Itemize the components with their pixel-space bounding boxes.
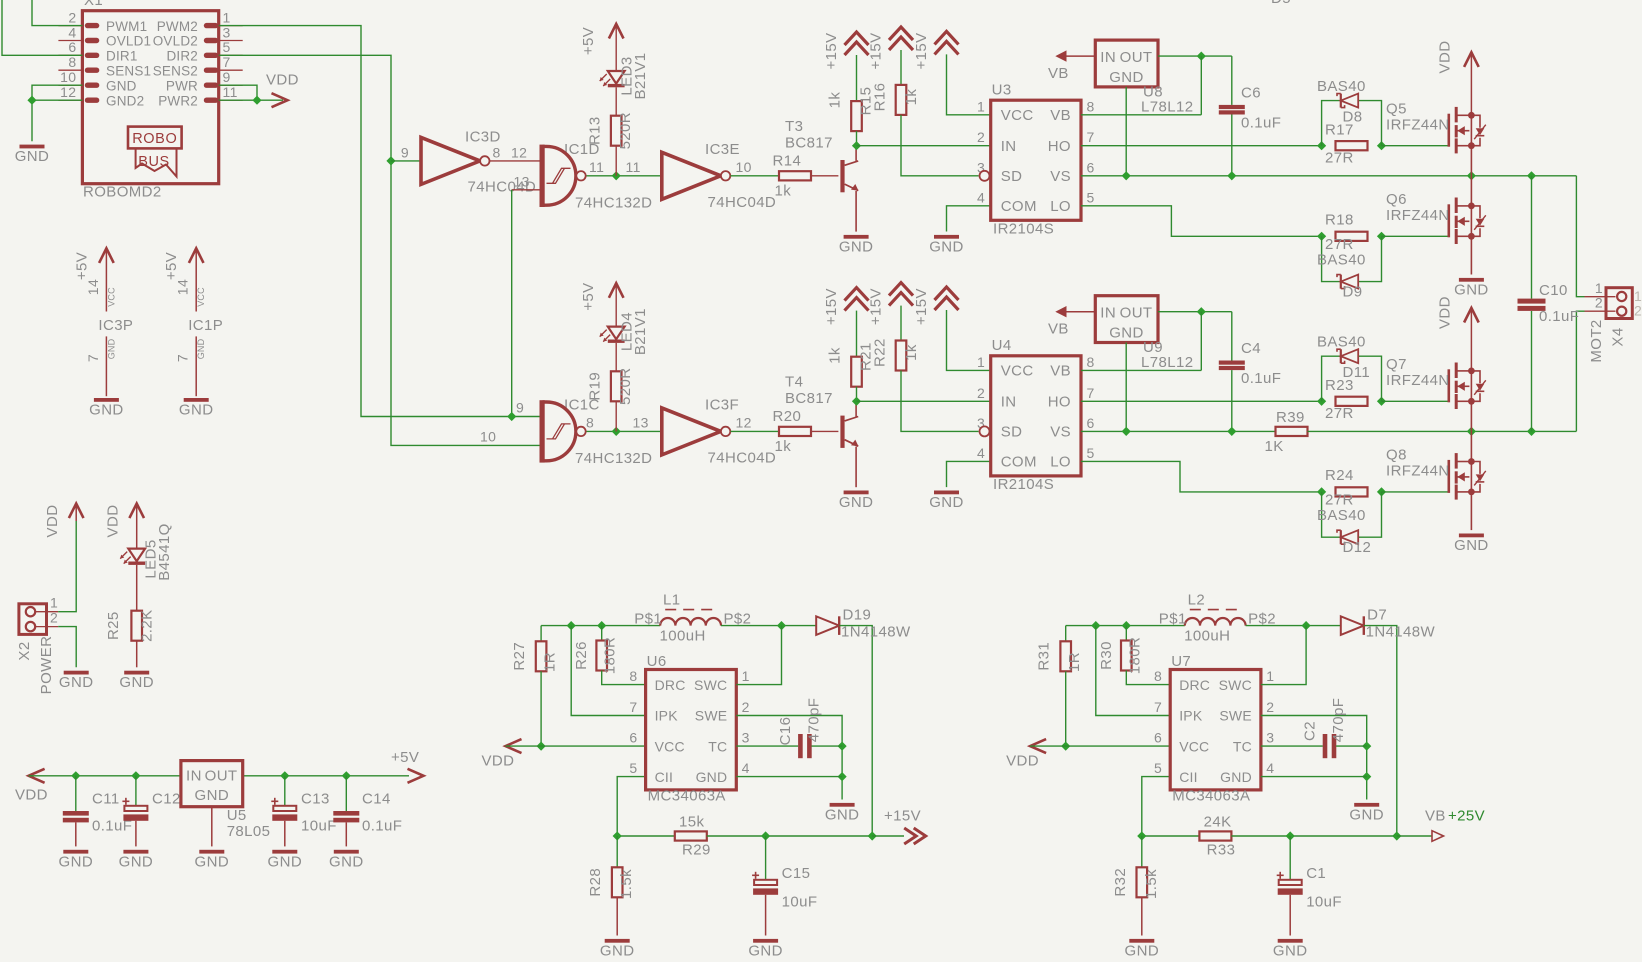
svg-text:R39: R39 — [1276, 409, 1305, 426]
svg-text:VDD: VDD — [44, 505, 61, 538]
svg-text:IC3D: IC3D — [465, 129, 501, 146]
svg-text:8: 8 — [493, 144, 501, 160]
svg-text:0.1uF: 0.1uF — [1241, 370, 1281, 387]
svg-text:Q8: Q8 — [1386, 447, 1407, 464]
svg-text:VCC: VCC — [655, 738, 685, 754]
svg-text:4: 4 — [1266, 760, 1274, 776]
svg-text:TC: TC — [708, 738, 727, 754]
svg-text:GND: GND — [839, 494, 874, 511]
svg-text:IN: IN — [1100, 305, 1116, 322]
svg-text:GND: GND — [1109, 325, 1144, 342]
svg-text:1: 1 — [1266, 668, 1274, 684]
svg-text:U5: U5 — [227, 807, 247, 824]
svg-text:COM: COM — [1001, 198, 1037, 215]
svg-text:R30: R30 — [1098, 641, 1115, 670]
svg-text:VB: VB — [1048, 65, 1069, 82]
svg-text:4: 4 — [68, 24, 76, 40]
svg-text:1: 1 — [1595, 280, 1603, 296]
svg-text:D5: D5 — [1271, 0, 1291, 7]
svg-text:DRC: DRC — [1179, 677, 1210, 693]
svg-text:8: 8 — [586, 415, 594, 431]
svg-text:VB: VB — [1050, 107, 1071, 124]
svg-text:GND: GND — [748, 942, 783, 959]
svg-text:COM: COM — [1001, 454, 1037, 471]
svg-text:1N4148W: 1N4148W — [1366, 624, 1436, 641]
svg-text:1k: 1k — [827, 347, 844, 364]
svg-text:1R: 1R — [542, 652, 559, 672]
svg-text:10: 10 — [60, 69, 76, 85]
svg-text:MC34063A: MC34063A — [648, 788, 726, 805]
svg-text:GND: GND — [1220, 769, 1252, 785]
svg-text:4: 4 — [742, 760, 750, 776]
svg-text:2: 2 — [977, 129, 985, 145]
svg-text:C14: C14 — [362, 791, 391, 808]
svg-text:0.1uF: 0.1uF — [1241, 115, 1281, 132]
svg-text:520R: 520R — [617, 112, 634, 149]
svg-text:3: 3 — [742, 730, 750, 746]
svg-text:6: 6 — [1087, 415, 1095, 431]
svg-text:T3: T3 — [785, 118, 803, 135]
svg-text:B21V1: B21V1 — [632, 308, 649, 355]
svg-text:GND: GND — [106, 338, 116, 359]
svg-text:11: 11 — [223, 84, 238, 100]
svg-text:D9: D9 — [1343, 284, 1363, 301]
svg-text:MC34063A: MC34063A — [1172, 788, 1250, 805]
svg-text:IC3E: IC3E — [705, 141, 740, 158]
svg-text:6: 6 — [1087, 159, 1095, 175]
svg-text:+5V: +5V — [580, 27, 597, 55]
svg-text:6: 6 — [68, 39, 76, 55]
svg-text:1: 1 — [50, 595, 58, 611]
svg-text:GND: GND — [106, 78, 137, 93]
svg-text:1: 1 — [1634, 288, 1642, 304]
svg-text:OVLD2: OVLD2 — [153, 34, 198, 49]
svg-text:1: 1 — [223, 9, 231, 25]
svg-text:ROBOMD2: ROBOMD2 — [83, 184, 162, 201]
svg-text:R24: R24 — [1325, 467, 1354, 484]
svg-text:IC3F: IC3F — [705, 397, 739, 414]
svg-text:C4: C4 — [1241, 340, 1261, 357]
svg-text:P$2: P$2 — [1248, 610, 1276, 627]
svg-text:GND: GND — [1454, 281, 1489, 298]
svg-text:9: 9 — [516, 400, 524, 416]
svg-text:B21V1: B21V1 — [632, 52, 649, 99]
svg-text:T4: T4 — [785, 373, 803, 390]
svg-text:R18: R18 — [1325, 212, 1354, 229]
svg-text:DIR1: DIR1 — [106, 49, 138, 64]
svg-text:27R: 27R — [1325, 492, 1354, 509]
svg-text:GND: GND — [119, 853, 154, 870]
svg-text:IRFZ44N: IRFZ44N — [1386, 207, 1450, 224]
svg-text:CII: CII — [1179, 769, 1198, 785]
svg-text:BC817: BC817 — [785, 134, 833, 151]
svg-text:GND: GND — [179, 402, 214, 419]
svg-text:5: 5 — [1087, 445, 1095, 461]
svg-text:SENS1: SENS1 — [106, 63, 151, 78]
svg-text:VCC: VCC — [1001, 107, 1034, 124]
svg-text:C10: C10 — [1539, 282, 1568, 299]
svg-text:1k: 1k — [903, 344, 920, 361]
svg-text:GND: GND — [696, 769, 728, 785]
svg-text:SWE: SWE — [695, 708, 728, 724]
svg-text:CII: CII — [655, 769, 674, 785]
svg-text:100uH: 100uH — [1184, 628, 1230, 645]
svg-text:+15V: +15V — [823, 32, 840, 69]
svg-text:GND: GND — [1125, 942, 1160, 959]
svg-text:520R: 520R — [617, 368, 634, 405]
svg-text:15k: 15k — [679, 814, 704, 831]
svg-text:10: 10 — [736, 159, 752, 175]
svg-text:GND: GND — [196, 338, 206, 359]
svg-text:470pF: 470pF — [806, 698, 823, 743]
svg-text:R26: R26 — [573, 641, 590, 670]
svg-text:1.5k: 1.5k — [618, 869, 635, 899]
svg-text:D19: D19 — [843, 607, 872, 624]
svg-text:7: 7 — [175, 354, 191, 362]
svg-text:2: 2 — [977, 385, 985, 401]
svg-text:R13: R13 — [587, 116, 604, 145]
svg-text:1: 1 — [977, 98, 985, 114]
svg-text:7: 7 — [1087, 129, 1095, 145]
svg-text:+15V: +15V — [913, 32, 930, 69]
svg-text:VB: VB — [1048, 321, 1069, 338]
svg-text:GND: GND — [195, 787, 230, 804]
svg-text:PWM2: PWM2 — [157, 19, 198, 34]
svg-text:2: 2 — [1266, 699, 1274, 715]
svg-text:B4541Q: B4541Q — [156, 523, 173, 580]
svg-text:VS: VS — [1050, 424, 1071, 441]
svg-text:+15V: +15V — [884, 808, 921, 825]
svg-text:8: 8 — [629, 668, 637, 684]
svg-text:GND: GND — [195, 853, 230, 870]
svg-text:1: 1 — [742, 668, 750, 684]
svg-text:BAS40: BAS40 — [1317, 78, 1366, 95]
svg-text:4: 4 — [977, 189, 985, 205]
svg-text:+15V: +15V — [868, 32, 885, 69]
svg-text:IPK: IPK — [1179, 708, 1203, 724]
svg-text:GND: GND — [825, 806, 860, 823]
svg-text:C1: C1 — [1306, 865, 1326, 882]
svg-text:IN: IN — [1001, 138, 1017, 155]
svg-text:X4: X4 — [1610, 327, 1627, 346]
svg-text:5: 5 — [223, 39, 231, 55]
svg-text:D8: D8 — [1343, 109, 1363, 126]
svg-text:R28: R28 — [587, 868, 604, 897]
svg-text:+15V: +15V — [913, 288, 930, 325]
svg-text:C16: C16 — [777, 717, 794, 746]
svg-text:GND: GND — [1109, 69, 1144, 86]
svg-text:11: 11 — [626, 159, 641, 175]
svg-text:VDD: VDD — [1006, 753, 1039, 770]
svg-text:L2: L2 — [1188, 592, 1206, 609]
svg-text:C11: C11 — [92, 791, 120, 808]
svg-text:OUT: OUT — [1120, 49, 1153, 66]
svg-text:BAS40: BAS40 — [1317, 252, 1366, 269]
svg-text:PWR: PWR — [166, 78, 198, 93]
svg-text:9: 9 — [401, 144, 409, 160]
svg-text:SD: SD — [1001, 168, 1023, 185]
svg-text:VB: VB — [1050, 363, 1071, 380]
svg-text:R14: R14 — [773, 153, 802, 170]
svg-text:GND: GND — [600, 942, 635, 959]
svg-text:D7: D7 — [1367, 607, 1387, 624]
svg-text:D11: D11 — [1343, 364, 1371, 381]
svg-text:POWER: POWER — [38, 636, 55, 695]
svg-text:DRC: DRC — [655, 677, 686, 693]
svg-text:10uF: 10uF — [782, 894, 818, 911]
svg-text:TC: TC — [1233, 738, 1252, 754]
svg-text:IRFZ44N: IRFZ44N — [1386, 372, 1450, 389]
svg-text:GND: GND — [268, 853, 303, 870]
svg-text:BAS40: BAS40 — [1317, 507, 1366, 524]
svg-text:GND: GND — [59, 853, 94, 870]
svg-text:C13: C13 — [301, 791, 330, 808]
svg-text:U7: U7 — [1171, 653, 1191, 670]
svg-text:P$1: P$1 — [634, 610, 662, 627]
svg-text:IPK: IPK — [655, 708, 679, 724]
svg-text:13: 13 — [514, 174, 530, 190]
svg-text:C6: C6 — [1241, 85, 1261, 102]
svg-text:VS: VS — [1050, 168, 1071, 185]
svg-text:470pF: 470pF — [1330, 698, 1347, 743]
svg-text:GND: GND — [929, 238, 964, 255]
svg-text:74HC132D: 74HC132D — [575, 450, 652, 467]
svg-text:MOT2: MOT2 — [1588, 319, 1605, 362]
svg-text:Q7: Q7 — [1386, 356, 1407, 373]
svg-text:8: 8 — [1154, 668, 1162, 684]
svg-text:SD: SD — [1001, 424, 1023, 441]
svg-text:HO: HO — [1048, 394, 1071, 411]
svg-text:+5V: +5V — [391, 749, 419, 766]
svg-text:9: 9 — [223, 69, 231, 85]
svg-text:180R: 180R — [602, 637, 619, 674]
svg-text:VCC: VCC — [1179, 738, 1209, 754]
svg-text:IRFZ44N: IRFZ44N — [1386, 463, 1450, 480]
svg-text:7: 7 — [629, 699, 637, 715]
svg-text:27R: 27R — [1325, 405, 1354, 422]
svg-text:GND: GND — [839, 238, 874, 255]
svg-text:GND: GND — [329, 853, 364, 870]
svg-text:R20: R20 — [773, 408, 802, 425]
svg-text:4: 4 — [977, 445, 985, 461]
svg-text:7: 7 — [85, 354, 101, 362]
svg-text:0.1uF: 0.1uF — [1539, 308, 1579, 325]
svg-text:78L05: 78L05 — [227, 823, 271, 840]
svg-text:180R: 180R — [1126, 637, 1143, 674]
svg-text:GND2: GND2 — [106, 93, 144, 108]
svg-text:2: 2 — [1595, 295, 1603, 311]
svg-text:7: 7 — [223, 54, 231, 70]
svg-text:2: 2 — [50, 609, 58, 625]
svg-text:+5V: +5V — [163, 252, 180, 280]
svg-text:C12: C12 — [152, 791, 181, 808]
svg-text:BC817: BC817 — [785, 390, 833, 407]
svg-text:100uH: 100uH — [660, 628, 706, 645]
svg-text:12: 12 — [60, 84, 76, 100]
svg-text:R27: R27 — [511, 642, 528, 671]
svg-text:PWM1: PWM1 — [106, 19, 147, 34]
svg-text:13: 13 — [633, 415, 649, 431]
svg-text:IN: IN — [186, 768, 202, 785]
svg-text:LO: LO — [1050, 454, 1071, 471]
svg-text:1: 1 — [977, 354, 985, 370]
svg-text:1.5k: 1.5k — [1143, 869, 1160, 899]
svg-text:VDD: VDD — [105, 505, 122, 538]
svg-text:D12: D12 — [1343, 539, 1372, 556]
svg-text:+5V: +5V — [73, 252, 90, 280]
svg-text:IC3P: IC3P — [98, 317, 133, 334]
svg-text:OUT: OUT — [1120, 305, 1153, 322]
svg-text:GND: GND — [1273, 942, 1308, 959]
svg-text:P$1: P$1 — [1159, 610, 1187, 627]
svg-text:IR2104S: IR2104S — [993, 476, 1054, 493]
svg-text:VCC: VCC — [196, 287, 206, 307]
svg-text:1k: 1k — [903, 89, 920, 106]
svg-text:OUT: OUT — [205, 768, 238, 785]
svg-text:IRFZ44N: IRFZ44N — [1386, 117, 1450, 134]
svg-text:SWC: SWC — [1219, 677, 1252, 693]
svg-text:27R: 27R — [1325, 236, 1354, 253]
svg-text:LO: LO — [1050, 198, 1071, 215]
svg-text:1K: 1K — [1265, 438, 1284, 455]
svg-text:R31: R31 — [1036, 642, 1053, 671]
svg-text:P$2: P$2 — [724, 610, 752, 627]
svg-text:8: 8 — [1087, 354, 1095, 370]
svg-text:R29: R29 — [682, 842, 711, 859]
svg-text:R22: R22 — [872, 338, 889, 367]
svg-text:VCC: VCC — [106, 287, 116, 307]
svg-text:BAS40: BAS40 — [1317, 334, 1366, 351]
svg-text:7: 7 — [1154, 699, 1162, 715]
svg-text:U3: U3 — [992, 82, 1012, 99]
svg-text:Q5: Q5 — [1386, 101, 1407, 118]
svg-text:3: 3 — [1266, 730, 1274, 746]
svg-text:1k: 1k — [775, 438, 792, 455]
svg-text:11: 11 — [589, 159, 604, 175]
svg-text:ROBO: ROBO — [132, 131, 177, 147]
svg-text:L78L12: L78L12 — [1141, 354, 1193, 371]
svg-text:R16: R16 — [872, 83, 889, 112]
svg-text:12: 12 — [736, 415, 752, 431]
svg-text:IR2104S: IR2104S — [993, 221, 1054, 238]
svg-text:PWR2: PWR2 — [158, 93, 198, 108]
svg-text:3: 3 — [223, 24, 231, 40]
svg-text:X2: X2 — [16, 641, 33, 660]
svg-text:L78L12: L78L12 — [1141, 99, 1193, 116]
svg-text:R33: R33 — [1207, 842, 1236, 859]
svg-text:5: 5 — [629, 760, 637, 776]
svg-text:2: 2 — [68, 9, 76, 25]
svg-text:10: 10 — [480, 429, 496, 445]
svg-text:R19: R19 — [587, 372, 604, 401]
svg-text:74HC04D: 74HC04D — [708, 449, 777, 466]
svg-text:2.2K: 2.2K — [139, 609, 156, 641]
svg-text:C2: C2 — [1302, 721, 1319, 741]
svg-text:+5V: +5V — [580, 282, 597, 310]
svg-text:8: 8 — [68, 54, 76, 70]
svg-text:74HC04D: 74HC04D — [708, 194, 777, 211]
svg-text:10uF: 10uF — [301, 818, 337, 835]
svg-text:0.1uF: 0.1uF — [362, 818, 402, 835]
svg-text:1k: 1k — [827, 92, 844, 109]
svg-text:27R: 27R — [1325, 150, 1354, 167]
svg-text:GND: GND — [15, 148, 50, 165]
svg-text:SWC: SWC — [694, 677, 727, 693]
svg-text:14: 14 — [85, 279, 101, 295]
svg-text:GND: GND — [89, 402, 124, 419]
svg-text:8: 8 — [1087, 98, 1095, 114]
svg-text:GND: GND — [59, 674, 94, 691]
svg-text:GND: GND — [119, 674, 154, 691]
svg-text:6: 6 — [629, 730, 637, 746]
svg-text:1R: 1R — [1066, 652, 1083, 672]
svg-text:C15: C15 — [782, 865, 811, 882]
svg-text:BUS: BUS — [138, 154, 170, 170]
svg-text:2: 2 — [742, 699, 750, 715]
svg-text:Q6: Q6 — [1386, 191, 1407, 208]
svg-text:7: 7 — [1087, 385, 1095, 401]
svg-text:R32: R32 — [1112, 868, 1129, 897]
svg-text:VCC: VCC — [1001, 363, 1034, 380]
svg-text:IN: IN — [1001, 394, 1017, 411]
svg-text:SWE: SWE — [1219, 708, 1252, 724]
svg-text:5: 5 — [1154, 760, 1162, 776]
svg-text:74HC132D: 74HC132D — [575, 195, 652, 212]
svg-text:DIR2: DIR2 — [166, 49, 198, 64]
svg-text:GND: GND — [1454, 537, 1489, 554]
svg-text:SENS2: SENS2 — [153, 63, 198, 78]
svg-text:6: 6 — [1154, 730, 1162, 746]
svg-text:VDD: VDD — [482, 753, 515, 770]
svg-text:VDD: VDD — [266, 72, 299, 89]
svg-text:VDD: VDD — [1437, 296, 1454, 329]
svg-text:R25: R25 — [105, 611, 122, 640]
svg-text:U4: U4 — [992, 337, 1012, 354]
svg-text:OVLD1: OVLD1 — [106, 34, 151, 49]
svg-text:24K: 24K — [1204, 814, 1232, 831]
svg-text:GND: GND — [929, 494, 964, 511]
svg-text:+15V: +15V — [868, 288, 885, 325]
svg-text:12: 12 — [511, 144, 527, 160]
svg-text:5: 5 — [1087, 189, 1095, 205]
svg-text:1N4148W: 1N4148W — [841, 624, 911, 641]
svg-text:GND: GND — [1349, 806, 1384, 823]
svg-text:+25V: +25V — [1448, 808, 1485, 825]
svg-text:10uF: 10uF — [1306, 894, 1342, 911]
svg-text:U6: U6 — [647, 653, 667, 670]
svg-text:X1: X1 — [84, 0, 103, 9]
svg-text:HO: HO — [1048, 138, 1071, 155]
svg-text:VB: VB — [1425, 808, 1446, 825]
svg-text:14: 14 — [175, 279, 191, 295]
svg-text:+15V: +15V — [823, 288, 840, 325]
svg-text:IN: IN — [1100, 49, 1116, 66]
svg-text:VDD: VDD — [15, 787, 48, 804]
svg-text:L1: L1 — [663, 592, 681, 609]
svg-text:2: 2 — [1634, 303, 1642, 319]
svg-text:1k: 1k — [775, 183, 792, 200]
svg-text:IC1P: IC1P — [188, 317, 223, 334]
svg-text:VDD: VDD — [1437, 41, 1454, 74]
